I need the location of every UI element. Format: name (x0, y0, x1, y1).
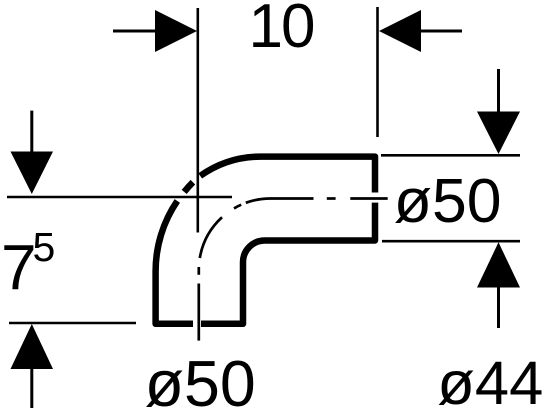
arrowhead pointing right (dim 10 left) (155, 10, 197, 52)
vertical centerline long dash (through bottom end cap) (197, 284, 200, 341)
bend centerline arc long dash (200, 217, 222, 258)
arrowhead pointing down (dim 75 top) (11, 152, 54, 195)
bend-to-horizontal centerline long dash (246, 198, 314, 202)
extension line at bottom pipe end level (for dim 75) (9, 322, 136, 325)
svg-text:0: 0 (281, 0, 315, 61)
right extension line of dim 10 (376, 7, 379, 137)
dimension line o50 right top (381, 154, 520, 157)
vertical extension line of pipe axis (top, for dim 10) (197, 8, 200, 233)
arrow tail (dim 75 bottom) (30, 368, 33, 408)
outer bend arc (upper segment), top wall, right end cap (upper part) (200, 157, 375, 193)
horizontal centerline long dash (through right end cap) (350, 197, 387, 200)
bend centerline arc dot (234, 205, 241, 209)
arrow tail (dim 10 left) (113, 30, 156, 33)
horizontal centerline dot (327, 197, 336, 200)
arrow tail (o50 right top) (497, 69, 500, 112)
svg-text:5: 5 (33, 224, 56, 270)
svg-text:ø50: ø50 (394, 166, 502, 236)
arrowhead pointing up (dim 75 bottom) (11, 324, 54, 369)
arrow tail (dim 75 top) (30, 111, 33, 152)
arrow tail (o50 right bottom / o44) (497, 287, 500, 328)
svg-text:ø50: ø50 (145, 348, 256, 416)
outer bend arc 45-degree dash between extension-line break gaps (184, 182, 193, 192)
vertical centerline dot (197, 267, 200, 275)
pipe elbow outer contour: bottom end cap (left part), left wall, outer bend arc (lower segment) (156, 201, 193, 324)
arrow tail (dim 10 right) (420, 30, 462, 33)
arrowhead pointing up (o50 right bottom / o44) (477, 242, 520, 287)
svg-text:ø44: ø44 (437, 349, 543, 416)
horizontal extension line of pipe axis (left, for dim 75) (7, 196, 232, 199)
dimension line o50 right bottom (382, 240, 520, 243)
pipe elbow inner contour: bottom end cap (right part), inner wall, inner bend arc, lower wall, right end cap (lower part) (201, 203, 375, 324)
arrowhead pointing left (dim 10 right) (379, 10, 421, 52)
svg-text:7: 7 (1, 232, 37, 304)
arrowhead pointing down (o50 right top) (477, 112, 520, 155)
svg-text:1: 1 (249, 0, 283, 61)
